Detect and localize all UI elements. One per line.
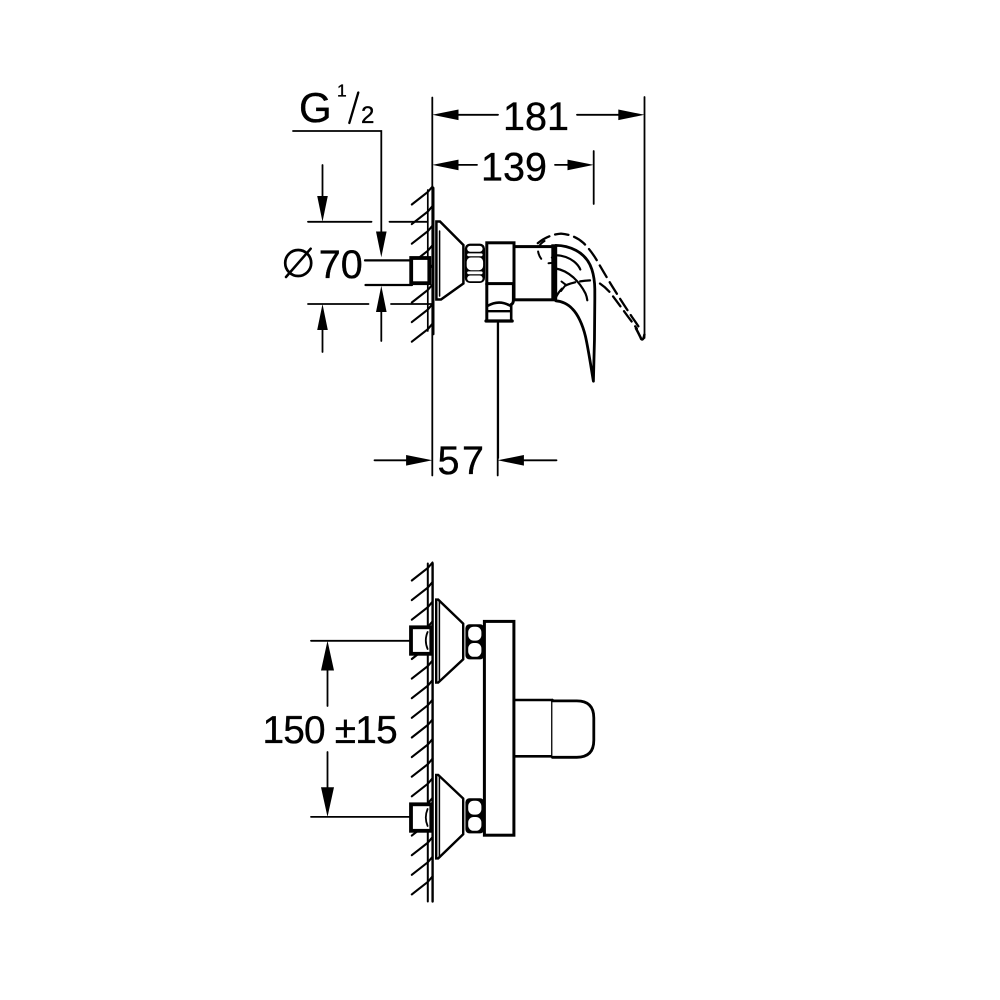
pivot bar bbox=[551, 244, 556, 300]
dimension 150 +-15 bbox=[311, 641, 411, 817]
handle highlight curves bbox=[556, 255, 581, 269]
svg-text:2: 2 bbox=[361, 102, 374, 129]
svg-text:139: 139 bbox=[481, 146, 547, 190]
escutcheons (plan) bbox=[436, 600, 463, 683]
escutcheon (side view) bbox=[436, 222, 463, 300]
union hex nut (side view) bbox=[465, 244, 485, 283]
dimension 181 bbox=[432, 97, 644, 338]
lever handle (solid position) bbox=[556, 245, 595, 381]
dashed handle (raised position) bbox=[538, 234, 645, 340]
outlet centre line bbox=[497, 323, 499, 458]
svg-text:150 ±15: 150 ±15 bbox=[263, 709, 397, 752]
body section A (cartridge housing) bbox=[487, 243, 514, 284]
dimension 139 bbox=[432, 151, 593, 204]
wall hatching top bbox=[412, 187, 433, 342]
dimension 57 bbox=[375, 188, 557, 476]
dimension diameter 70 bbox=[308, 165, 433, 352]
handle stem + knob (plan) bbox=[514, 700, 594, 757]
svg-text:70: 70 bbox=[319, 243, 363, 287]
G1/2 fitting square bbox=[411, 258, 429, 283]
wall bbox=[428, 188, 433, 334]
svg-text:181: 181 bbox=[503, 95, 569, 139]
fitting squares (plan) bbox=[411, 627, 431, 654]
wall hatching bottom bbox=[412, 563, 433, 895]
body section B (main body) bbox=[514, 247, 554, 300]
supply pipe lines bbox=[365, 260, 412, 285]
svg-text:G: G bbox=[299, 84, 332, 131]
hex nuts (plan) bbox=[465, 624, 484, 659]
shower outlet below bbox=[486, 284, 513, 321]
body plate (plan) bbox=[484, 621, 514, 835]
svg-text:1: 1 bbox=[337, 81, 347, 101]
svg-text:57: 57 bbox=[438, 439, 487, 483]
wall bbox=[428, 564, 433, 902]
